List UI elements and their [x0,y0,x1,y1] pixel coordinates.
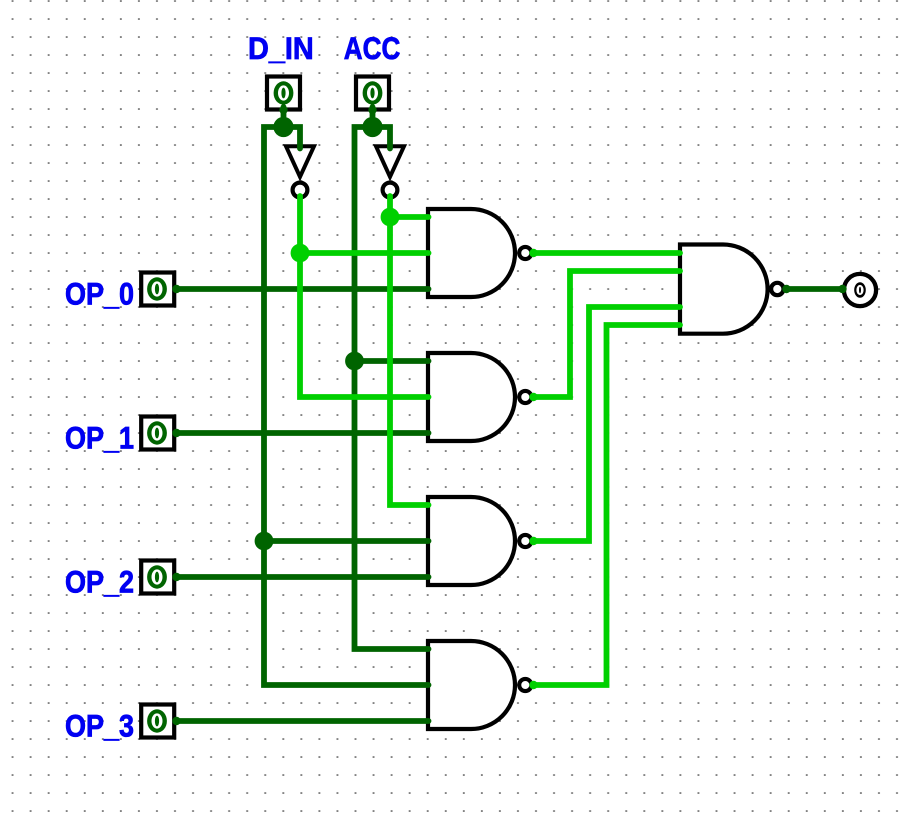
wire G2 output to G5 input 2 [534,271,680,397]
connection blob OP_2 pin [172,573,180,581]
not gate U1 (D_IN inverter) [286,146,314,197]
connection blob G1 output [529,249,537,257]
input pin OP_0 box [141,273,174,306]
connection blob G3 output [529,537,537,545]
input pin OP_2 box [141,561,174,594]
connection blob G4 output [529,681,537,689]
not gate U2 (ACC inverter) [376,146,404,197]
wire G3 output to G5 input 3 [534,307,680,541]
connection blob G5 output [782,285,790,293]
connection blob G2 output [529,393,537,401]
nand gate G2 [428,353,531,441]
wire OP_3 to G4 input 3 [176,718,429,724]
nand gate G5 (4-input) [680,245,784,334]
connection blob ACC pin stub [368,106,376,114]
svg-text:OP_0: OP_0 [65,276,134,311]
wire OP_2 to G3 input 3 [176,574,429,580]
nand gate G1 [428,209,531,297]
output pin circle [844,274,876,306]
wire ACC branch to G2 input 1 [355,358,429,364]
svg-text:D_IN: D_IN [248,31,314,66]
junction NOT U1 out at G1 row [291,244,310,263]
svg-text:OP_3: OP_3 [65,708,134,743]
input pin OP_3 box [141,705,174,738]
wire OP_0 to G1 input 3 [176,286,429,292]
value 0 in OP_2 [147,565,167,588]
value 0 in OP_1 [147,421,167,444]
connection blob output pin [838,285,846,293]
connection blob D_IN pin stub [279,106,287,114]
wire OP_1 to G2 input 3 [176,430,429,436]
connection blob OP_3 pin [172,717,180,725]
input pin ACC box [356,77,389,110]
wire G5 output to output pin [786,286,843,292]
svg-text:ACC: ACC [344,31,401,66]
wire D_IN dot to left branch [264,127,429,685]
value 0 in output pin [854,282,866,298]
wires layer [176,107,843,721]
value 0 in ACC [363,81,383,104]
wire D_IN pin stub [281,107,287,127]
wire NOT U2 output vertical [390,196,429,505]
connection blob OP_1 pin [172,429,180,437]
wire G1 output to G5 input 1 [534,250,680,256]
wire ACC pin stub [370,107,376,127]
value 0 in OP_0 [147,277,167,300]
svg-text:OP_2: OP_2 [65,564,134,599]
junction D_IN top [273,117,293,137]
wire NOT U2 branch to G1 input 1 [390,214,429,220]
svg-text:OP_1: OP_1 [65,420,134,455]
nand gate G4 [428,641,531,729]
connection blob OP_0 pin [172,285,180,293]
wire ACC dot to NOT U2 input [373,127,391,149]
input pin D_IN box [267,77,300,110]
wire NOT U1 output vertical [300,196,429,397]
wire NOT U1 branch to G1 input 2 [300,250,429,256]
junction NOT U2 out at G1 row [381,208,400,227]
input pin OP_1 box [141,417,174,450]
wire G4 output to G5 input 4 [534,325,680,685]
wire ACC dot to left branch [355,127,429,649]
nand gate G3 [428,497,531,585]
value 0 in D_IN [274,81,294,104]
junction D_IN branch at G3 row [255,532,274,551]
wire D_IN branch to G3 input 2 [264,538,429,544]
wire D_IN dot to NOT U1 input [284,127,301,149]
junction ACC branch at G2 row [345,352,364,371]
value 0 in OP_3 [147,709,167,732]
junction ACC top [362,117,382,137]
